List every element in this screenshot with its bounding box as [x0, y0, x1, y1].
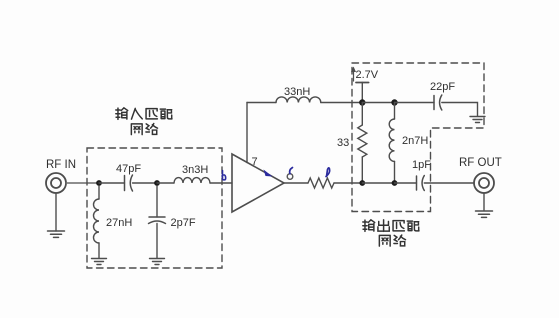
wire RF IN connector to ground stem — [55, 193, 57, 231]
wire node B to inductor L2 — [157, 182, 174, 184]
wire node F to capacitor C5 — [395, 182, 417, 184]
svg-text:RF IN: RF IN — [46, 159, 76, 171]
wire C4 to ground corner — [442, 103, 478, 117]
wire node D to capacitor C4 — [395, 102, 435, 104]
value 33nH — [284, 86, 310, 98]
annotation blue script l above R2 — [326, 168, 330, 177]
RF OUT label — [459, 157, 502, 169]
svg-text:33nH: 33nH — [284, 86, 310, 98]
value 2p7F — [171, 217, 196, 229]
wire node A to capacitor C1 — [99, 182, 125, 184]
input matching network box — [87, 148, 222, 268]
ground (27nH) — [92, 259, 107, 265]
wire feedback top left segment — [247, 102, 276, 104]
capacitor C2 2p7F — [149, 217, 166, 224]
wire C1 to node B — [133, 182, 158, 184]
resistor R2 (series output) — [308, 178, 334, 188]
value 22pF — [430, 81, 455, 93]
svg-text:7: 7 — [252, 156, 258, 168]
node F (2n7H bottom junction) — [392, 180, 398, 186]
pin 7 label — [252, 156, 258, 168]
supply arrow 2.7V — [351, 67, 356, 82]
value 2.7V — [356, 69, 379, 81]
ground (2p7F) — [150, 259, 165, 265]
svg-text:27nH: 27nH — [106, 217, 132, 229]
svg-text:RF OUT: RF OUT — [459, 157, 502, 169]
op-amp U1 — [232, 154, 284, 212]
wire top rail node C to node D — [362, 102, 394, 104]
node A — [96, 180, 102, 186]
node E (33 bottom junction) — [359, 180, 365, 186]
svg-text:33: 33 — [337, 137, 349, 149]
wire node E to node F — [362, 182, 394, 184]
capacitor C5 1pF — [417, 176, 425, 191]
inductor L2 3n3H — [174, 178, 210, 183]
annotation blue input mark — [222, 171, 226, 180]
node B — [154, 180, 160, 186]
svg-text:3n3H: 3n3H — [182, 164, 208, 176]
label 网络 (input) — [131, 124, 157, 135]
wire RF IN to node A — [66, 182, 99, 184]
RF IN label — [46, 159, 76, 171]
annotation blue arrow on U1 edge — [264, 170, 273, 177]
capacitor C4 22pF — [434, 95, 442, 110]
label 输出匹配 (output matching) — [363, 220, 419, 232]
inductor L3 33nH (feedback) — [276, 97, 321, 103]
ground (RF IN) — [48, 231, 65, 237]
wire feedback vertical from U1 top edge — [246, 103, 248, 163]
RF IN connector — [46, 173, 66, 193]
value 1pF — [412, 159, 431, 171]
svg-text:22pF: 22pF — [430, 81, 455, 93]
value 2n7H — [402, 135, 428, 147]
ground (RF OUT) — [476, 211, 493, 217]
ground (22pF) — [470, 117, 485, 123]
annotation blue delta at output — [287, 168, 293, 180]
wire RF OUT connector to ground — [483, 193, 485, 210]
label 输入匹配 (input matching) — [116, 108, 172, 120]
svg-text:2.7V: 2.7V — [356, 69, 379, 81]
svg-text:1pF: 1pF — [412, 159, 431, 171]
capacitor C1 47pF — [125, 175, 133, 191]
value 27nH — [106, 217, 132, 229]
wire U1 output to resistor R2 — [284, 182, 308, 184]
svg-text:47pF: 47pF — [116, 163, 141, 175]
resistor R1 33 (shunt) — [358, 103, 367, 184]
value 47pF — [116, 163, 141, 175]
inductor L4 2n7H (shunt) — [389, 103, 394, 184]
value 3n3H — [182, 164, 208, 176]
wire C2 to ground — [156, 224, 158, 259]
svg-text:2n7H: 2n7H — [402, 135, 428, 147]
wire L2 to amplifier input — [210, 182, 232, 184]
RF OUT connector — [474, 173, 494, 193]
supply tap T — [356, 83, 369, 103]
wire L3 to supply node — [321, 102, 363, 104]
label 网络 (output) — [379, 235, 405, 246]
value 33 — [337, 137, 349, 149]
wire R2 to node E — [334, 182, 362, 184]
wire node B to capacitor C2 — [156, 186, 158, 217]
inductor L1 27nH (shunt) — [94, 186, 100, 258]
node D (2n7H top) — [391, 99, 397, 105]
svg-text:2p7F: 2p7F — [171, 217, 196, 229]
node C (supply junction top) — [359, 99, 365, 105]
output matching network box — [352, 63, 484, 212]
wire C5 to RF OUT connector — [424, 182, 474, 184]
